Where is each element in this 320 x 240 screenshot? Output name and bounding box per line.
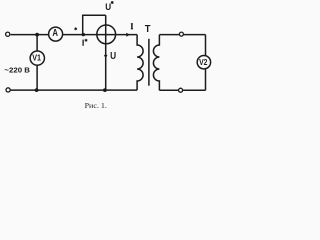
svg-text:Рис. 1.: Рис. 1. [85,101,107,110]
svg-text:U: U [105,2,111,13]
svg-text:U: U [110,51,116,62]
svg-text:T: T [145,24,152,35]
svg-text:A: A [52,28,58,39]
svg-text:~220 В: ~220 В [4,66,30,75]
svg-text:V2: V2 [199,58,208,67]
svg-text:V1: V1 [32,53,41,62]
